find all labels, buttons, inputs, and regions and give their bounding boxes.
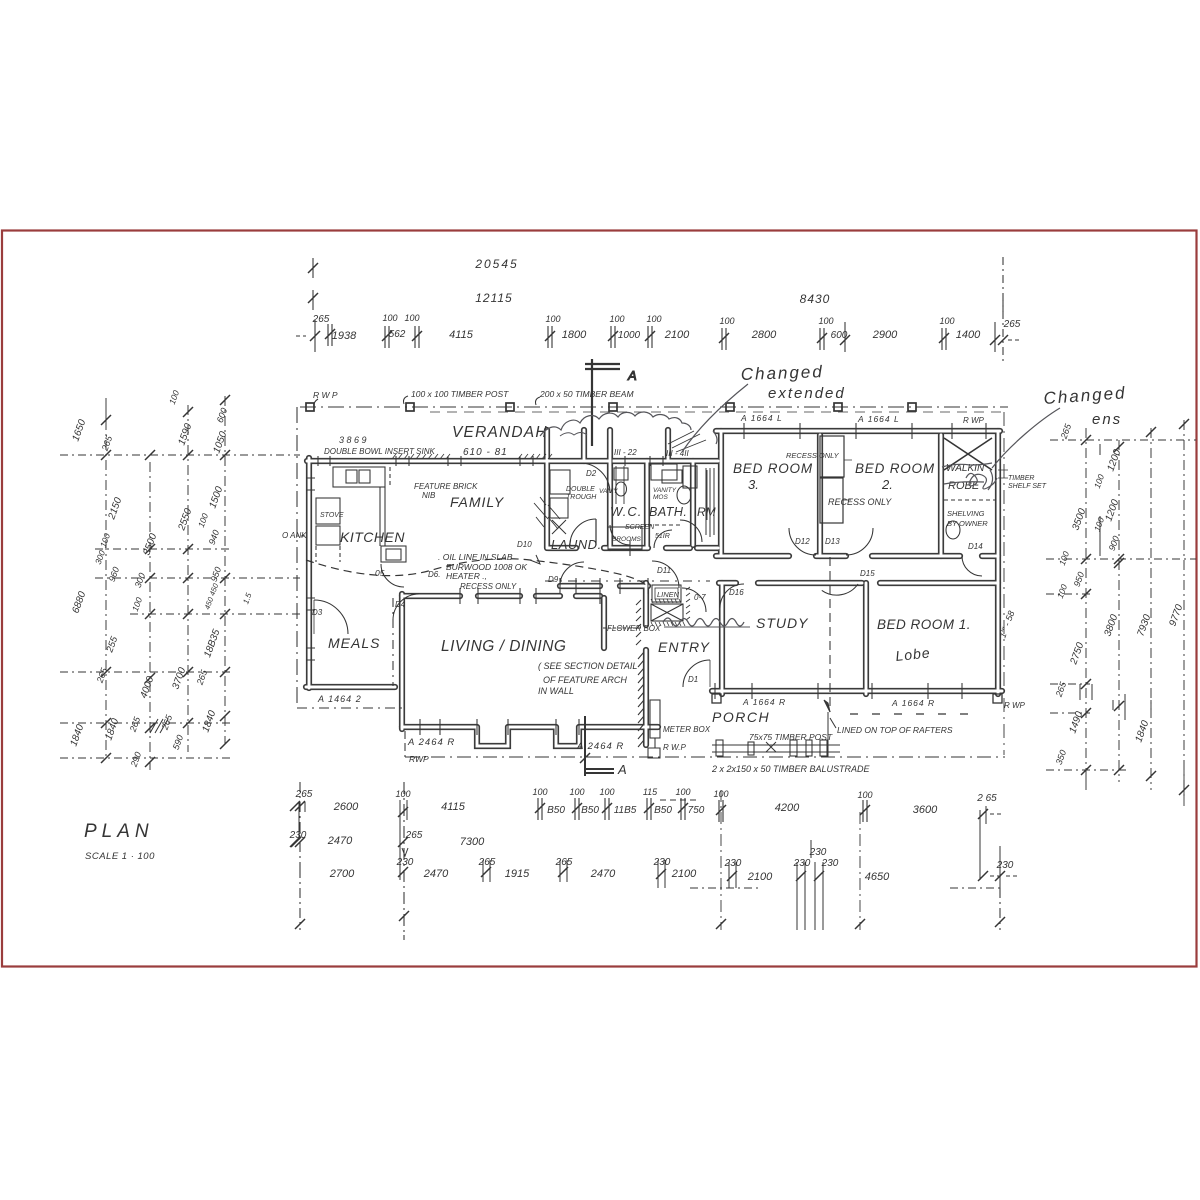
svg-text:2100: 2100 xyxy=(747,871,773,883)
svg-text:265: 265 xyxy=(1058,422,1073,441)
svg-text:VANITY: VANITY xyxy=(653,487,677,494)
svg-text:562: 562 xyxy=(389,329,406,340)
svg-text:8430: 8430 xyxy=(800,292,831,306)
svg-text:2550: 2550 xyxy=(176,507,194,533)
svg-text:230: 230 xyxy=(724,858,742,869)
svg-text:LAUND.: LAUND. xyxy=(551,537,602,552)
svg-text:265: 265 xyxy=(194,668,209,687)
svg-text:1800: 1800 xyxy=(562,329,587,341)
svg-text:2 x 2x150 x 50 TIMBER BALUST: 2 x 2x150 x 50 TIMBER BALUSTRADE xyxy=(711,764,871,774)
svg-text:1050: 1050 xyxy=(211,430,229,455)
svg-text:100: 100 xyxy=(1055,583,1069,600)
svg-text:1490: 1490 xyxy=(1067,710,1085,735)
svg-text:2100: 2100 xyxy=(664,329,690,341)
svg-text:IN WALL: IN WALL xyxy=(538,686,574,696)
svg-text:B50: B50 xyxy=(581,805,599,816)
svg-text:265: 265 xyxy=(1003,319,1021,330)
svg-text:230: 230 xyxy=(396,857,414,868)
svg-text:A 2464 R: A 2464 R xyxy=(576,741,624,752)
svg-text:1590: 1590 xyxy=(176,422,194,447)
svg-text:D2: D2 xyxy=(586,469,597,478)
svg-text:BED ROOM: BED ROOM xyxy=(855,461,935,476)
svg-text:D15: D15 xyxy=(860,569,875,578)
svg-text:D12: D12 xyxy=(795,537,810,546)
svg-text:2700: 2700 xyxy=(329,868,355,880)
svg-text:100: 100 xyxy=(98,532,112,549)
svg-text:200 x 50 TIMBER BEAM: 200 x 50 TIMBER BEAM xyxy=(539,389,634,399)
svg-text:TIMBER: TIMBER xyxy=(1008,475,1034,482)
svg-text:255: 255 xyxy=(104,635,120,655)
svg-text:BED ROOM 1.: BED ROOM 1. xyxy=(877,617,971,632)
svg-text:4000: 4000 xyxy=(138,675,156,700)
svg-text:STUDY: STUDY xyxy=(756,615,809,631)
svg-text:1840: 1840 xyxy=(68,723,86,748)
svg-text:1915: 1915 xyxy=(505,868,530,880)
svg-text:A 1464 2: A 1464 2 xyxy=(317,694,362,704)
svg-text:FAMILY: FAMILY xyxy=(450,494,505,510)
svg-text:265: 265 xyxy=(405,830,423,841)
svg-text:A 1664 R: A 1664 R xyxy=(891,698,935,708)
svg-text:2150: 2150 xyxy=(106,496,124,522)
svg-text:300: 300 xyxy=(93,549,107,566)
svg-text:B50: B50 xyxy=(654,805,672,816)
svg-text:4115: 4115 xyxy=(441,801,466,813)
svg-text:D13: D13 xyxy=(825,537,840,546)
svg-text:III - 22: III - 22 xyxy=(614,448,637,457)
svg-text:1840: 1840 xyxy=(1133,719,1151,744)
svg-text:3700: 3700 xyxy=(170,666,188,691)
svg-text:1400: 1400 xyxy=(956,329,981,341)
svg-text:R WP: R WP xyxy=(1004,701,1026,710)
svg-text:940: 940 xyxy=(207,529,222,547)
svg-text:300: 300 xyxy=(133,572,148,590)
svg-text:BATH.: BATH. xyxy=(649,505,687,519)
svg-text:LIVING / DINING: LIVING / DINING xyxy=(441,638,567,655)
svg-text:A 1664 L: A 1664 L xyxy=(740,413,783,423)
svg-text:BED ROOM: BED ROOM xyxy=(733,461,813,476)
svg-text:D16: D16 xyxy=(729,588,744,597)
svg-text:100: 100 xyxy=(395,789,410,799)
svg-text:7300: 7300 xyxy=(460,836,485,848)
svg-text:1500: 1500 xyxy=(207,485,225,510)
svg-text:LINED ON TOP OF RAFTERS: LINED ON TOP OF RAFTERS xyxy=(837,725,953,735)
svg-text:350: 350 xyxy=(1054,749,1069,767)
svg-text:SCALE 1 · 100: SCALE 1 · 100 xyxy=(85,851,155,862)
svg-text:100: 100 xyxy=(857,790,872,800)
svg-text:PORCH: PORCH xyxy=(712,709,770,725)
svg-text:FEATURE BRICK: FEATURE BRICK xyxy=(414,482,478,491)
svg-text:100: 100 xyxy=(545,314,560,324)
svg-text:2470: 2470 xyxy=(327,835,353,847)
svg-text:2 65: 2 65 xyxy=(976,793,997,804)
svg-text:2750: 2750 xyxy=(1068,641,1086,667)
svg-text:2100: 2100 xyxy=(671,868,697,880)
svg-text:100: 100 xyxy=(130,596,144,613)
svg-text:9770: 9770 xyxy=(1167,603,1185,628)
svg-text:230: 230 xyxy=(996,860,1014,871)
svg-text:100: 100 xyxy=(1057,550,1071,567)
svg-text:1000: 1000 xyxy=(618,330,641,341)
svg-text:3500: 3500 xyxy=(141,532,159,557)
svg-text:MOS: MOS xyxy=(653,494,668,501)
svg-text:230: 230 xyxy=(793,858,811,869)
svg-text:3.: 3. xyxy=(748,477,759,492)
svg-text:2470: 2470 xyxy=(423,868,449,880)
svg-text:100 x 100 TIMBER POST: 100 x 100 TIMBER POST xyxy=(411,389,509,399)
svg-text:3 8 6 9: 3 8 6 9 xyxy=(339,435,367,445)
svg-text:1650: 1650 xyxy=(70,418,88,443)
svg-text:265: 265 xyxy=(99,434,114,453)
svg-text:610 - 81: 610 - 81 xyxy=(463,447,508,458)
svg-text:265: 265 xyxy=(295,789,313,800)
svg-text:960: 960 xyxy=(107,566,122,584)
svg-text:1.5: 1.5 xyxy=(241,591,253,605)
svg-text:ENTRY: ENTRY xyxy=(658,639,711,655)
svg-text:III - 4II: III - 4II xyxy=(666,449,689,458)
svg-text:Changed: Changed xyxy=(1043,383,1127,408)
svg-text:20545: 20545 xyxy=(474,257,518,271)
svg-text:TROUGH: TROUGH xyxy=(566,494,597,501)
svg-text:Changed: Changed xyxy=(740,362,824,384)
svg-text:LINEN: LINEN xyxy=(657,590,680,599)
svg-text:R W.P: R W.P xyxy=(663,743,686,752)
svg-text:3600: 3600 xyxy=(913,804,938,816)
svg-text:265: 265 xyxy=(312,314,330,325)
svg-text:PLAN: PLAN xyxy=(84,821,154,842)
svg-text:A 1664 L: A 1664 L xyxy=(857,414,900,424)
svg-text:BY OWNER: BY OWNER xyxy=(947,519,988,528)
svg-text:SHELVING: SHELVING xyxy=(947,509,985,518)
svg-text:R WP: R WP xyxy=(963,416,985,425)
svg-text:100: 100 xyxy=(382,313,397,323)
svg-text:100: 100 xyxy=(532,787,547,797)
svg-text:SHELF SET: SHELF SET xyxy=(1008,483,1047,490)
svg-text:12115: 12115 xyxy=(475,291,512,305)
svg-text:265: 265 xyxy=(127,715,142,734)
svg-text:MEALS: MEALS xyxy=(328,635,380,651)
svg-text:230: 230 xyxy=(653,857,671,868)
svg-text:Lobe: Lobe xyxy=(895,644,932,664)
svg-text:A: A xyxy=(627,368,637,383)
svg-text:18B35: 18B35 xyxy=(202,628,222,659)
svg-text:51IR: 51IR xyxy=(655,533,670,540)
svg-text:NIB: NIB xyxy=(422,491,436,500)
svg-text:A 2464 R: A 2464 R xyxy=(407,737,455,748)
svg-text:450 450: 450 450 xyxy=(203,581,221,610)
svg-text:590: 590 xyxy=(171,734,186,752)
svg-text:METER BOX: METER BOX xyxy=(663,725,711,734)
svg-text:100: 100 xyxy=(719,316,734,326)
svg-text:KITCHEN: KITCHEN xyxy=(340,529,405,545)
svg-text:4650: 4650 xyxy=(865,871,890,883)
svg-text:6880: 6880 xyxy=(70,590,88,615)
svg-text:100: 100 xyxy=(167,389,181,406)
svg-text:750: 750 xyxy=(688,805,705,816)
svg-text:HEATER .,: HEATER ., xyxy=(446,571,487,581)
svg-text:0·7: 0·7 xyxy=(694,593,706,602)
svg-text:R W P: R W P xyxy=(313,390,338,400)
svg-text:100: 100 xyxy=(646,314,661,324)
svg-text:( SEE SECTION DETAIL: ( SEE SECTION DETAIL xyxy=(538,661,637,671)
svg-text:RWP: RWP xyxy=(409,754,429,764)
svg-text:3800: 3800 xyxy=(1102,613,1120,638)
svg-text:RECESS ONLY: RECESS ONLY xyxy=(828,497,892,507)
svg-text:11B5: 11B5 xyxy=(614,805,637,816)
svg-text:RECESS ONLY: RECESS ONLY xyxy=(460,582,517,591)
svg-text:2800: 2800 xyxy=(751,329,777,341)
svg-text:1840: 1840 xyxy=(200,709,218,734)
svg-text:290: 290 xyxy=(128,751,143,769)
svg-text:4115: 4115 xyxy=(449,329,474,341)
svg-text:100: 100 xyxy=(939,316,954,326)
svg-text:115: 115 xyxy=(643,787,658,797)
svg-text:265: 265 xyxy=(478,857,496,868)
svg-text:100: 100 xyxy=(675,787,690,797)
svg-text:2900: 2900 xyxy=(872,329,898,341)
svg-text:4200: 4200 xyxy=(775,802,800,814)
svg-text:W.C.: W.C. xyxy=(610,504,642,519)
svg-text:extended: extended xyxy=(768,385,846,402)
svg-text:100: 100 xyxy=(818,316,833,326)
svg-text:950: 950 xyxy=(1072,571,1087,589)
svg-text:A: A xyxy=(617,762,627,777)
svg-text:2470: 2470 xyxy=(590,868,616,880)
svg-text:100: 100 xyxy=(196,512,210,529)
svg-text:100: 100 xyxy=(404,313,419,323)
svg-text:VERANDAH: VERANDAH xyxy=(452,424,548,441)
svg-text:2600: 2600 xyxy=(333,801,359,813)
svg-text:OF FEATURE ARCH: OF FEATURE ARCH xyxy=(543,675,627,685)
svg-text:600: 600 xyxy=(215,407,230,425)
svg-text:D1: D1 xyxy=(688,675,698,684)
svg-text:2.: 2. xyxy=(881,477,893,492)
svg-text:B50: B50 xyxy=(547,805,565,816)
svg-text:RECESS ONLY: RECESS ONLY xyxy=(786,451,840,460)
svg-text:A 1664 R: A 1664 R xyxy=(742,697,786,707)
svg-text:1938: 1938 xyxy=(332,330,357,342)
svg-text:100: 100 xyxy=(599,787,614,797)
svg-text:D10: D10 xyxy=(517,540,532,549)
svg-text:100: 100 xyxy=(609,314,624,324)
svg-text:DOUBLE BOWL INSERT SINK: DOUBLE BOWL INSERT SINK xyxy=(324,447,436,456)
svg-text:265: 265 xyxy=(1053,680,1068,699)
svg-text:950: 950 xyxy=(209,566,224,584)
svg-text:ens: ens xyxy=(1092,411,1122,428)
svg-text:100: 100 xyxy=(1092,473,1106,490)
svg-text:100: 100 xyxy=(569,787,584,797)
svg-text:265: 265 xyxy=(555,857,573,868)
